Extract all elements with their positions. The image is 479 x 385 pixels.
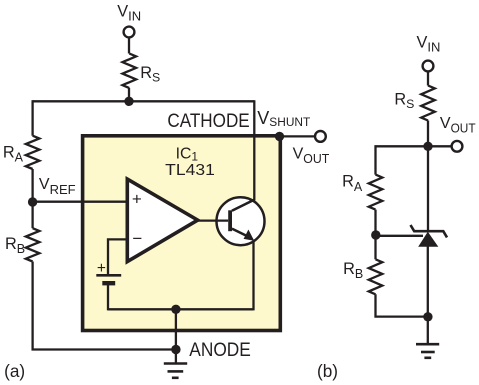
wire RS to TL431 cathode (b): [427, 121, 429, 232]
wire node to RA branch (b): [376, 146, 429, 174]
wire anode (through IC border): [175, 309, 177, 349]
svg-text:VSHUNT: VSHUNT: [257, 108, 310, 129]
wire battery to internal ground rail: [107, 283, 109, 310]
wire node to VOUT terminal (b): [428, 145, 452, 147]
op-amp A1 triangle: [127, 179, 197, 262]
ground (a): [164, 350, 187, 378]
resistor RS (a): [123, 54, 137, 89]
svg-text:CATHODE: CATHODE: [167, 111, 249, 132]
label RB (a): [5, 235, 25, 256]
node ground junction (b): [423, 312, 432, 321]
resistor RA (a): [26, 136, 40, 169]
pin - (op-amp inverting): [132, 229, 142, 248]
node ANODE: [171, 345, 180, 354]
svg-text:ANODE: ANODE: [189, 340, 251, 361]
svg-text:VIN: VIN: [117, 2, 141, 23]
svg-text:RA: RA: [3, 143, 24, 164]
svg-text:+: +: [132, 189, 142, 208]
label IC1: [176, 145, 199, 163]
diode D1 TL431 shunt symbol (b): [411, 225, 448, 247]
svg-text:VOUT: VOUT: [440, 115, 476, 136]
wire internal emitter rail: [108, 308, 254, 310]
wire emitter down: [252, 240, 254, 311]
svg-text:VIN: VIN: [417, 33, 441, 54]
terminal VOUT (a): [315, 131, 326, 142]
label (a): [4, 361, 25, 381]
node VOUT (b): [423, 142, 432, 151]
node VREF: [28, 197, 37, 206]
resistor RA (b): [369, 175, 383, 210]
resistor RS (b): [421, 86, 435, 121]
wire VREF to op-amp + input: [33, 201, 128, 203]
node RS junction (a): [124, 97, 133, 106]
label VOUT (b): [440, 115, 476, 136]
terminal VIN (b): [423, 61, 434, 72]
value label TL431: [165, 162, 215, 179]
battery negative plate: [102, 281, 115, 285]
wire RA to RB (b): [374, 210, 376, 260]
svg-text:RS: RS: [394, 91, 414, 112]
wire TL431 anode down (b): [427, 246, 429, 344]
wire VIN to RS (b): [427, 72, 429, 86]
svg-text:VOUT: VOUT: [293, 146, 330, 167]
label ANODE: [189, 340, 251, 361]
wire left rail bottom + bottom wire to anode: [33, 262, 176, 350]
pin + (op-amp noninverting): [132, 189, 142, 208]
svg-text:RS: RS: [140, 64, 160, 85]
wire top rail (a): [33, 100, 255, 102]
label VIN (b): [417, 33, 441, 54]
svg-text:RB: RB: [343, 260, 363, 281]
ground (b): [416, 344, 439, 358]
resistor RB (b): [369, 259, 383, 294]
label CATHODE: [167, 111, 249, 132]
label VIN (a): [117, 2, 141, 23]
label RS (a): [140, 64, 160, 85]
label RB (b): [343, 260, 363, 281]
svg-text:VREF: VREF: [39, 176, 76, 197]
label VREF: [39, 176, 76, 197]
svg-text:(a): (a): [4, 361, 25, 381]
label (b): [317, 361, 338, 381]
svg-text:RB: RB: [5, 235, 25, 256]
transistor Q1: [217, 197, 265, 245]
label RA (b): [342, 172, 363, 193]
label RS (b): [394, 91, 414, 112]
battery reference VREF source: plus label: [97, 260, 106, 277]
wire RA to VREF node: [31, 169, 33, 228]
wire RS to node (a): [128, 88, 130, 101]
label VOUT (a): [293, 146, 330, 167]
op-amp U1 (TL431 internal block, yellow body): [83, 136, 281, 331]
wire VIN to RS (a): [128, 38, 130, 54]
node reference divider (b): [371, 230, 380, 239]
wire VSHUNT to VOUT terminal: [280, 135, 316, 137]
svg-text:TL431: TL431: [165, 162, 215, 179]
wire RB to ground rail (b): [376, 294, 428, 316]
label VSHUNT: [257, 108, 310, 129]
wire left rail top (a): [31, 100, 33, 136]
wire op-amp output to base: [198, 219, 229, 221]
node VSHUNT: [275, 132, 284, 141]
wire inverting input to battery: [108, 239, 127, 274]
terminal VIN (a): [124, 27, 135, 38]
svg-text:(b): (b): [317, 361, 338, 381]
svg-text:−: −: [132, 229, 142, 248]
resistor RB (a): [26, 228, 40, 261]
battery positive plate: [96, 274, 121, 277]
terminal VOUT (b): [452, 141, 463, 152]
node anode internal junction: [171, 305, 180, 314]
wire cathode (vertical into IC): [253, 100, 255, 200]
wire reference to TL431 (b): [376, 235, 423, 237]
label RA (a): [3, 143, 24, 164]
svg-text:RA: RA: [342, 172, 363, 193]
